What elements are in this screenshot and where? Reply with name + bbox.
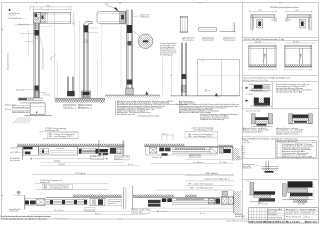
- svg-text:M + m: M + m: [200, 213, 206, 215]
- hatch band: [17, 144, 124, 147]
- upper plan detail left: [249, 10, 276, 12]
- row2 details: [247, 41, 276, 70]
- wedge: [234, 191, 242, 214]
- ground line: [170, 95, 240, 97]
- svg-text:890 (Bau): 890 (Bau): [205, 173, 219, 175]
- notes above titleblock: [258, 199, 308, 205]
- right leaders: [88, 27, 98, 29]
- I-beam section: [180, 16, 187, 32]
- svg-text:Winkel vz. 50/50/5: Winkel vz. 50/50/5: [282, 155, 306, 157]
- svg-text:Rohr d50: Rohr d50: [243, 166, 251, 168]
- svg-text:Belags-OK: Belags-OK: [40, 182, 50, 184]
- svg-text:01: 01: [313, 184, 315, 186]
- dividers: [243, 38, 319, 180]
- svg-text:Index C: Index C: [305, 217, 311, 219]
- svg-text:-0.12 RB: -0.12 RB: [10, 152, 18, 154]
- beam rect: [34, 12, 71, 23]
- svg-text:Winkel vz.: Winkel vz.: [224, 39, 234, 41]
- svg-text:VM-SM-Festverglasung Sturz: VM-SM-Festverglasung Sturz: [270, 6, 299, 9]
- upper plan detail right (mirrored): [286, 10, 312, 12]
- Abdichtung table: [276, 140, 317, 157]
- sill assembly: [18, 98, 45, 103]
- svg-text:5'515 (Bau): 5'515 (Bau): [75, 173, 86, 175]
- svg-text:04: 04: [276, 149, 278, 151]
- svg-text:06: 06: [276, 153, 278, 155]
- right jamb cluster: [98, 140, 100, 156]
- bottom-right corner detail: [283, 181, 313, 202]
- hatch band: [144, 144, 184, 147]
- corner right: [219, 148, 223, 153]
- svg-text:10.22: 10.22: [241, 154, 245, 156]
- rounded beam (shutter box): [97, 12, 126, 24]
- left texts beside table: [241, 140, 250, 156]
- right margin tiny labels: [313, 184, 315, 201]
- track: [46, 200, 87, 205]
- svg-text:70 | 3.5 m: 70 | 3.5 m: [54, 210, 65, 212]
- svg-text:04: 04: [313, 187, 315, 189]
- svg-text:02: 02: [313, 190, 315, 192]
- svg-text:Gefaelle 2%: Gefaelle 2%: [243, 168, 253, 170]
- dims below: [30, 158, 108, 160]
- hatch band: [73, 194, 122, 197]
- svg-text:102 (Bau): 102 (Bau): [54, 161, 61, 163]
- corner details: [252, 114, 273, 127]
- svg-text:02: 02: [276, 146, 278, 148]
- detail bubble circle: [138, 34, 153, 49]
- middle column: [267, 208, 269, 223]
- svg-text:Section im Fensterbereich / Um: Section im Fensterbereich / Umgebung S A…: [243, 76, 290, 79]
- top dimension lines: [30, 6, 75, 26]
- dim verticals: [56, 60, 58, 98]
- svg-text:600 | 600: 600 | 600: [255, 41, 261, 43]
- svg-text:Mst 1:5 A1: Mst 1:5 A1: [286, 220, 301, 223]
- svg-text:2'620: 2'620: [51, 56, 53, 60]
- svg-text:S1: S1: [298, 61, 300, 63]
- svg-text:1'465: 1'465: [46, 5, 50, 7]
- svg-text:Gez. MB: Gez. MB: [298, 203, 305, 205]
- svg-text:Plan 4512-01: Plan 4512-01: [286, 217, 301, 219]
- svg-text:03: 03: [313, 196, 315, 198]
- svg-text:Kompriband BG1 vorkompr.: Kompriband BG1 vorkompr.: [282, 146, 315, 148]
- svg-text:W-02: W-02: [241, 146, 245, 148]
- boxed labels under ground: [64, 104, 76, 108]
- L corner: [234, 23, 236, 33]
- svg-text:07: 07: [276, 155, 278, 157]
- svg-text:IPE 120 vz.: IPE 120 vz.: [183, 39, 193, 41]
- mullion 4: [182, 43, 187, 96]
- svg-text:Fassaden: Fassaden: [268, 212, 277, 214]
- beton box + dims: [189, 154, 200, 157]
- svg-text:08: 08: [276, 156, 278, 158]
- svg-text:swisspor AG Fassaden: swisspor AG Fassaden: [9, 12, 20, 15]
- svg-text:W-01 Metallfassade — — —: W-01 Metallfassade — — —: [9, 17, 28, 20]
- glass pane line: [39, 26, 53, 28]
- revision grid left: [249, 208, 268, 223]
- svg-text:Daemmung 180mm RF1: Daemmung 180mm RF1: [276, 86, 306, 88]
- svg-text:M + Mm: M + Mm: [219, 162, 227, 164]
- ground diagonal hatch: [13, 117, 31, 123]
- three boxed labels: [183, 37, 194, 40]
- wall edge + dark blocks: [22, 146, 24, 160]
- ground line: [105, 94, 160, 96]
- track strip: [78, 149, 99, 154]
- circle symbol: [17, 191, 20, 194]
- top long dim line: [33, 174, 233, 176]
- right boxes: [90, 198, 105, 206]
- opening pane outline: [101, 25, 126, 88]
- horizontal bar: [199, 28, 217, 32]
- mullion B with top hook: [84, 22, 93, 98]
- svg-text:M + m: M + m: [128, 164, 134, 166]
- svg-text:250: 250: [163, 133, 166, 135]
- pipe detail: [243, 161, 279, 172]
- jamb + boxed label: [123, 187, 125, 210]
- svg-text:Hinweis: Hinweis: [244, 140, 249, 142]
- small dims left: [162, 134, 173, 136]
- svg-text:1'200: 1'200: [258, 10, 262, 12]
- dims below: [30, 210, 130, 212]
- svg-text:120: 120: [40, 8, 43, 10]
- bottom-left corner detail: [247, 180, 275, 202]
- svg-text:+2.74 OK: +2.74 OK: [245, 94, 253, 96]
- svg-text:M 1:5/1:10: M 1:5/1:10: [258, 203, 268, 205]
- svg-text:S1: S1: [263, 61, 265, 63]
- svg-text:1'200: 1'200: [295, 10, 299, 12]
- svg-text:W-01 VM-SM-Schiebefenster 2-f: W-01 VM-SM-Schiebefenster 2-flg: [244, 38, 284, 41]
- right text block: [276, 83, 314, 94]
- dark label boxes: [148, 200, 161, 203]
- svg-text:4512-W01-C: 4512-W01-C: [268, 220, 285, 223]
- elevation rectangle: [198, 60, 240, 96]
- assembly: [146, 146, 218, 155]
- svg-text:Blatt 1/1: Blatt 1/1: [305, 220, 318, 223]
- svg-text:UK +0.00: UK +0.00: [64, 107, 72, 109]
- ground band: [55, 97, 105, 99]
- vertical dim lines: [54, 12, 56, 100]
- svg-text:A B C 10.22 MB: A B C 10.22 MB: [249, 220, 267, 223]
- dark bottom row: [249, 220, 318, 223]
- left details: [272, 82, 274, 109]
- svg-text:ca 30: ca 30: [104, 4, 108, 6]
- track: [172, 198, 220, 204]
- wall edge + blocks: [24, 196, 26, 210]
- texts under corner details: [243, 127, 305, 136]
- svg-text:05: 05: [276, 151, 278, 153]
- wedge: [233, 148, 240, 161]
- short mullion pair A: [67, 77, 73, 96]
- beam left dense end (shutter box): [34, 13, 41, 24]
- arrow leader: [114, 7, 120, 12]
- svg-text:gem. Plan: gem. Plan: [244, 142, 250, 144]
- svg-text:Fenster u. Tueren W-01: Fenster u. Tueren W-01: [286, 208, 316, 211]
- svg-text:01: 01: [276, 144, 278, 146]
- svg-text:noch Dritten zugaenglich gemac: noch Dritten zugaenglich gemacht werden.…: [1, 218, 48, 221]
- mullion vertical frame: [34, 23, 39, 98]
- svg-text:Rahmen-: Rahmen-: [235, 214, 244, 216]
- svg-text:Rev C massg.: Rev C massg.: [55, 218, 68, 220]
- big box: [39, 146, 78, 155]
- svg-text:05: 05: [313, 199, 315, 201]
- svg-text:600 | 600: 600 | 600: [293, 41, 299, 43]
- mullion: [127, 10, 133, 89]
- svg-text:03: 03: [276, 147, 278, 149]
- svg-text:RF-1: RF-1: [43, 93, 47, 95]
- svg-text:06: 06: [313, 193, 315, 195]
- left leaders: [14, 25, 34, 42]
- svg-text:+0.00 OK: +0.00 OK: [10, 148, 18, 150]
- hatch: [133, 194, 174, 197]
- texts below: [132, 209, 150, 214]
- svg-text:501 (Bau): 501 (Bau): [58, 164, 66, 166]
- right block: [285, 211, 318, 219]
- svg-text:Rahmen-: Rahmen-: [237, 157, 246, 159]
- band continues to 123: [108, 148, 123, 154]
- right X boxes + corner: [221, 196, 234, 205]
- svg-text:duebel M10: duebel M10: [235, 216, 245, 218]
- svg-text:M 1:5: M 1:5: [241, 150, 245, 152]
- legend table: [160, 42, 178, 56]
